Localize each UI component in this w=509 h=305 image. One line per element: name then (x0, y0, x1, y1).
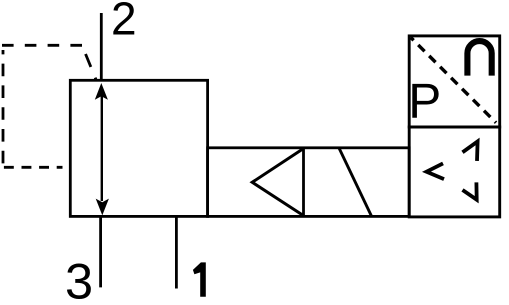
chevron left (<) (427, 163, 445, 179)
actuator divider (302, 148, 305, 217)
svg-text:2: 2 (111, 0, 137, 45)
dashed diagonal (spring box) (411, 38, 496, 123)
pilot line left vertical segment (2, 50, 5, 163)
chevron bottom right (463, 182, 477, 199)
pilot line top horizontal segment (2, 44, 84, 47)
pilot triangle (pneumatic actuation) (252, 149, 303, 216)
port 3 line (bottom left) (99, 216, 102, 287)
port 1 line (bottom right) (175, 216, 178, 288)
pilot line diagonal segment to valve top (82, 45, 96, 79)
flow control box (bottom right) (409, 127, 500, 217)
flow path arrow (double-headed, vertical) (95, 83, 109, 215)
pneumatic spring box (top right) (409, 36, 500, 127)
svg-text:3: 3 (65, 252, 93, 305)
cap symbol (inverted U) (467, 41, 491, 76)
valve body (position box) (70, 80, 207, 216)
return diagonal (actuation lever) (339, 148, 371, 216)
pilot line bottom horizontal segment (4, 166, 63, 169)
chevron top right (463, 141, 478, 161)
port 2 line (top) (100, 13, 103, 80)
pilot line (dashed control line loop) (2, 45, 96, 167)
port label 1 (193, 262, 206, 296)
svg-text:P: P (408, 74, 441, 129)
actuator box (pilot section) (208, 148, 410, 217)
